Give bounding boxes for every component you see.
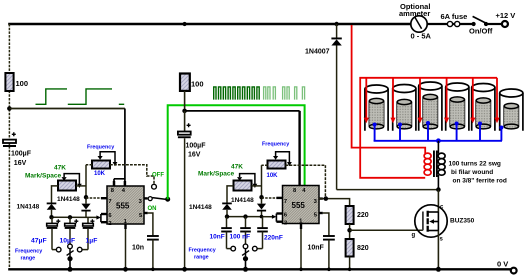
transformer T1 core xyxy=(433,151,435,178)
potentiometer VR2 47K Mark/Space xyxy=(25,165,82,191)
svg-text:OFF: OFF xyxy=(152,173,164,179)
svg-text:1N4148: 1N4148 xyxy=(231,197,254,204)
waveform pulse burst faint xyxy=(264,87,305,100)
wire VR1 left to node xyxy=(86,164,92,166)
svg-text:220: 220 xyxy=(357,212,369,219)
svg-text:7: 7 xyxy=(108,199,111,205)
wire supply drop to 555 no1 pins 8/4 xyxy=(114,109,125,187)
svg-text:6A fuse: 6A fuse xyxy=(441,12,468,21)
diode D4 1N4148 xyxy=(231,165,266,216)
svg-text:10n: 10n xyxy=(132,245,144,252)
wire supply drop to 555 no2 pin 8 xyxy=(298,111,300,186)
wire Vcc rail1 xyxy=(9,108,125,110)
capacitor C10 10nF xyxy=(308,213,335,271)
svg-text:7: 7 xyxy=(284,199,287,205)
coil tube 6 xyxy=(500,89,523,131)
node A junction R1 bottom xyxy=(7,106,12,111)
svg-text:16V: 16V xyxy=(14,160,27,167)
diode D3 1N4148 xyxy=(189,203,232,217)
svg-text:10K: 10K xyxy=(267,173,279,179)
svg-text:Frequency: Frequency xyxy=(189,248,216,254)
wire D4 node to pin7 no2 xyxy=(262,197,277,199)
wire D2 node to pin7 xyxy=(86,197,101,199)
capacitor C3 10uF xyxy=(60,217,79,244)
capacitor C5 10n xyxy=(132,213,159,271)
wire VR2 left to D1 xyxy=(52,186,59,203)
coil tube 4 xyxy=(446,83,469,131)
capacitor C6 100uF 16V xyxy=(178,111,206,272)
ammeter M1 xyxy=(399,2,432,41)
diode D2 1N4148 xyxy=(57,165,91,218)
svg-text:100: 100 xyxy=(191,79,204,88)
wire ammeter to fuse xyxy=(427,23,473,25)
capacitor C1 100uF 16V xyxy=(3,132,32,167)
node B junction xyxy=(182,109,187,114)
wire timing rail caps no2 xyxy=(227,216,273,218)
op-amp U2 555 timer no2 xyxy=(276,186,322,230)
wire VR1 right to OFF contact xyxy=(110,165,154,184)
svg-text:100µF: 100µF xyxy=(11,150,32,157)
capacitor C9 220nF xyxy=(257,217,283,249)
wire green gate signal xyxy=(168,105,305,199)
transformer T1 primary red xyxy=(424,153,431,175)
coil tube 1 xyxy=(365,85,388,131)
wire pin1 no1 to 0V xyxy=(125,229,127,269)
wire D5 anode to drain xyxy=(337,189,439,191)
coil tube 5 xyxy=(472,84,495,131)
coil former tubes xyxy=(365,82,523,131)
svg-text:100µF: 100µF xyxy=(186,143,207,150)
wire pin1 no2 to 0V xyxy=(300,229,302,269)
waveform pulse burst dark xyxy=(214,87,259,100)
wire switch to terminal xyxy=(486,23,502,25)
svg-text:+12 V: +12 V xyxy=(496,11,516,20)
wire gate xyxy=(350,229,423,231)
wire timing rail caps xyxy=(52,216,98,218)
waveform square wave xyxy=(36,89,125,104)
switch S2 Frequency range xyxy=(15,244,82,272)
red tap arrow 2 xyxy=(392,78,394,118)
wire bottom 0V rail xyxy=(8,268,511,270)
svg-text:10µF: 10µF xyxy=(60,237,76,244)
svg-text:555: 555 xyxy=(116,201,130,210)
resistor R3 220 xyxy=(346,206,369,224)
svg-text:100 nF: 100 nF xyxy=(230,234,251,241)
svg-text:2: 2 xyxy=(108,221,111,227)
capacitor C8 100nF xyxy=(230,217,251,245)
svg-text:10nF: 10nF xyxy=(210,234,225,241)
svg-text:220nF: 220nF xyxy=(264,235,283,242)
svg-text:range: range xyxy=(21,255,36,261)
terminal +12V xyxy=(496,11,516,27)
svg-text:0 - 5A: 0 - 5A xyxy=(411,32,432,41)
wire Vcc rail2 xyxy=(185,110,300,112)
svg-text:10K: 10K xyxy=(94,171,106,177)
svg-text:1N4148: 1N4148 xyxy=(17,204,40,211)
svg-text:47K: 47K xyxy=(54,165,66,172)
red tap arrow 5 xyxy=(472,78,474,118)
wire blue secondary bus xyxy=(373,121,504,143)
capacitor C4 1uF xyxy=(82,217,97,249)
svg-text:1µF: 1µF xyxy=(86,237,98,244)
resistor R1 100 xyxy=(5,73,28,91)
svg-text:100: 100 xyxy=(16,79,29,88)
svg-text:100 turns 22 swg: 100 turns 22 swg xyxy=(449,161,501,168)
switch S1 On/Off xyxy=(469,16,493,35)
junction arrow to pins 6/2 xyxy=(96,215,101,219)
svg-text:on 3/8" ferrite rod: on 3/8" ferrite rod xyxy=(453,178,507,185)
svg-text:Mark/Space: Mark/Space xyxy=(198,170,235,177)
svg-text:10nF: 10nF xyxy=(308,245,325,252)
potentiometer VR1 10K Frequency xyxy=(87,145,117,177)
junction arrow to pins 6/2 no2 xyxy=(272,215,277,219)
wire VR3 left to node xyxy=(262,164,268,166)
wire red winding loop box xyxy=(360,78,497,178)
svg-text:bi filar wound: bi filar wound xyxy=(451,169,493,176)
wire top +12V rail xyxy=(8,23,411,26)
wire R2 to node B xyxy=(184,91,186,111)
svg-text:BUZ350: BUZ350 xyxy=(450,217,475,224)
svg-text:range: range xyxy=(194,255,209,261)
resistor R4 820 xyxy=(346,239,369,271)
svg-text:0 V: 0 V xyxy=(497,260,508,269)
svg-text:Frequency: Frequency xyxy=(15,248,42,254)
coil tube 2 xyxy=(393,85,416,131)
wire left rail xyxy=(8,24,10,269)
capacitor C2 47uF xyxy=(31,217,60,249)
capacitor C7 10nF xyxy=(210,217,232,249)
svg-text:820: 820 xyxy=(357,245,369,252)
switch S4 Frequency range no2 xyxy=(189,244,258,272)
wire VR4 right to node xyxy=(252,185,262,187)
red tap arrow 1 xyxy=(365,78,367,118)
fuse F1 6A xyxy=(441,12,468,27)
svg-text:555: 555 xyxy=(292,201,306,210)
svg-text:1N4148: 1N4148 xyxy=(57,196,80,203)
wire VR4 left to D3 xyxy=(227,186,234,203)
svg-text:1N4148: 1N4148 xyxy=(189,204,212,211)
red tap arrow 4 xyxy=(446,78,448,118)
potentiometer VR3 10K Frequency no2 xyxy=(262,141,292,179)
wire VR2 right to node xyxy=(76,185,86,187)
svg-text:ammeter: ammeter xyxy=(399,9,430,18)
red tap arrow 3 xyxy=(419,78,421,118)
red winding taps with arrows xyxy=(364,78,500,123)
svg-text:1N4007: 1N4007 xyxy=(305,49,330,56)
transformer T1 secondary black xyxy=(438,153,445,175)
coil tube 3 xyxy=(419,82,442,131)
terminal 0V xyxy=(497,260,517,274)
diode D5 1N4007 xyxy=(305,22,342,190)
red tap arrow 6 xyxy=(496,78,498,118)
wire pin3 no2 output xyxy=(319,199,350,206)
node C gate junction xyxy=(349,224,351,239)
svg-text:47µF: 47µF xyxy=(31,237,47,244)
svg-text:g: g xyxy=(412,233,416,239)
switch S3 OFF/ON gate select xyxy=(148,173,171,213)
transistor Q1 BUZ350 xyxy=(412,190,475,272)
label coil xyxy=(449,161,507,185)
svg-text:Frequency: Frequency xyxy=(262,141,289,147)
wire secondary to drain node xyxy=(437,141,439,154)
svg-text:Mark/Space: Mark/Space xyxy=(25,173,62,180)
diode D1 1N4148 xyxy=(17,203,57,218)
potentiometer VR4 47K Mark/Space no2 xyxy=(198,164,257,191)
wire red +12 to primary xyxy=(352,25,426,154)
svg-text:16V: 16V xyxy=(188,152,201,159)
svg-text:ON: ON xyxy=(148,206,157,212)
op-amp U1 555 timer no1 xyxy=(101,186,148,229)
svg-text:On/Off: On/Off xyxy=(469,27,493,36)
svg-text:Frequency: Frequency xyxy=(87,145,114,151)
resistor R2 100 xyxy=(180,22,204,91)
wire VR3 right to pin3 junction xyxy=(286,165,326,198)
svg-text:2: 2 xyxy=(284,220,287,226)
